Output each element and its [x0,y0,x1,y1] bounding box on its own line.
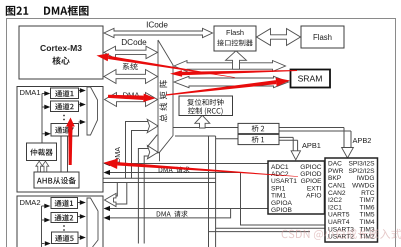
svg-text:TIM4: TIM4 [359,219,374,226]
svg-text:EXTI: EXTI [307,185,322,192]
label: DMA 请求 (upper request lines) [159,167,190,173]
wire: DMA2 channels to trapezoid [78,203,81,238]
bus channel: DMA1 master elbow arrowhead into bus matrix [147,119,158,132]
bus arrow: ICode double arrow Cortex to Flash interface [104,28,213,37]
bus channel: slant line from matrix into DMA master elbow [147,135,157,147]
svg-text:Flash: Flash [313,33,332,42]
wire: bus-matrix to bridge2 line [173,127,238,129]
svg-text:GPIOD: GPIOD [300,171,321,178]
wire: bridge1 to APB1 channel [279,137,298,151]
block: Flash memory box [301,26,344,48]
block: DMA2 controller box (cut off at bottom) [17,196,103,247]
junction: solid arrowhead DMA request line 1 [104,161,111,166]
wire: DMA request line 3 (to DMA2) [106,208,268,210]
svg-text:USART1: USART1 [271,178,297,185]
label: 系统 (system) [123,63,138,70]
bus arrow: APB2 down V arrowhead into peripheral box2 [342,148,354,159]
bus channel: DMA2 master elbow channel lines [138,149,148,244]
label: channel ellipsis dots (DMA1) [63,115,65,117]
bus channel: hollow arrow into AHB slave of DMA1 [79,173,93,188]
watermark: CSDN [282,229,401,240]
block: DMA1 controller box [17,87,103,193]
svg-text:SPI1: SPI1 [271,185,286,192]
svg-text:GPIOA: GPIOA [271,200,292,207]
bus matrix 总线矩阵 [158,40,173,161]
block: APB1-group peripheral box (ADC1...) [268,161,325,214]
bus channel: hollow arrow into DMA2 [105,193,117,206]
svg-text:I2C1: I2C1 [328,204,342,211]
bus channel: DMA2 master elbow arrowhead into matrix [147,146,158,159]
wire: DMA1 channel feed vertical with branches [42,94,45,144]
wire: DMA request line 4 (to DMA2) with up-stub [106,209,231,218]
block: bridge 1 box [238,134,279,144]
wire: DMA request line 1 (to DMA1) [106,163,268,165]
bus arrow: Flash interface to Flash memory double arrow [257,29,301,46]
bus arrow: matrix to SRAM lower double arrow [174,76,289,87]
component: DMA1 internal bus mux trapezoid [87,87,98,135]
block: APB2-group peripheral box (DAC...) [325,158,378,242]
wire: DMA request line 2 (to DMA1) with jog down to APB feed [106,173,325,226]
svg-text:GPIOB: GPIOB [271,207,292,214]
svg-text:TIM5: TIM5 [359,212,374,219]
block: arbiter 仲裁器 box (DMA1) [27,143,57,161]
wire: DMA1 channels to internal bus trapezoid [79,91,81,123]
svg-text:AFIO: AFIO [306,193,321,200]
svg-text:ADC1: ADC1 [271,164,289,171]
label: 总线矩阵 (vertical) [159,80,167,122]
bus arrow: two small up arrows arbiter to AHB slave [36,161,43,172]
annotation: red arrow to bus matrix [170,70,182,77]
annotation: red arrow on DMA bus label [143,94,155,102]
block: SRAM box [291,70,331,88]
bus arrow: DCode double arrow [104,46,158,58]
block: Flash interface controller box [214,26,256,51]
svg-text:RTC: RTC [361,190,375,197]
block: channel box 通道7 (DMA1) [51,124,79,137]
svg-text:UART5: UART5 [328,212,350,219]
bus channel: DMA1 master elbow channel lines [126,122,149,179]
label: figure title DMA框图 [44,5,89,15]
svg-text:SPI2/I2S: SPI2/I2S [348,168,375,175]
svg-text:TIM2: TIM2 [359,234,374,241]
svg-text:SPI3/I2S: SPI3/I2S [348,161,375,168]
svg-text:DCode: DCode [121,38,147,47]
svg-text:BKP: BKP [328,175,342,182]
wire: bottom collector line [209,231,311,233]
svg-text:APB1: APB1 [302,141,321,150]
block: channel box 通道5 (DMA2) [52,232,79,244]
label: DMA 请求 (lower request lines) [157,211,188,217]
svg-text:CAN2: CAN2 [328,190,346,197]
block: Cortex-M3 core box U-CPU [19,26,103,79]
junction: solid arrowhead DMA request line 2 [104,170,111,175]
svg-text:DMA1: DMA1 [20,88,41,97]
svg-text:DAC: DAC [328,161,342,168]
block: AHB slave 从设备 box (DMA1) [34,172,79,188]
label: figure title 图21 [6,6,28,16]
wire: lower collector line to peripheral box2 [216,227,325,229]
wire: feed line to bridge1 [216,138,238,140]
svg-text:I2C2: I2C2 [328,197,342,204]
annotation: red arrow to SRAM [276,78,290,87]
svg-text:Flash: Flash [226,28,244,37]
bus arrow: System bus double arrow [104,70,158,84]
svg-text:WWDG: WWDG [352,183,374,190]
svg-text:TIM3: TIM3 [359,226,374,233]
block: bridge 2 box [238,123,279,133]
svg-text:TIM1: TIM1 [271,193,286,200]
svg-text:ICode: ICode [146,21,168,30]
svg-text:GPIOC: GPIOC [300,164,321,171]
wire: bus-matrix lower line to vertical AHB channel [175,135,216,137]
svg-text:TIM6: TIM6 [359,204,374,211]
bus arrow: up arrow from AHB bus to Flash interface controller [226,51,247,69]
svg-text:UART4: UART4 [328,219,350,226]
wire: vertical AHB system bus pair [209,136,216,247]
junction: feed arrowheads into DMA1 channels [44,91,50,96]
junction: solid arrowhead DMA request line 3 [104,206,111,211]
label: channel ellipsis dots (DMA2) [63,225,65,227]
wire: DMA2 channel feed vertical with branches [42,206,45,247]
wire: bridge2 to APB2 channel [279,128,351,148]
annotation: red arrow to Cortex core [97,53,110,61]
svg-text:Cortex-M3: Cortex-M3 [40,43,82,53]
svg-text:GPIOE: GPIOE [301,178,322,185]
component: DMA2 internal bus mux trapezoid (cut off) [87,198,98,247]
annotation: red arrow on DMA request line [104,159,118,169]
bus arrow: up arrow into RCC [195,115,210,128]
bus arrow: DMA double arrow DMA1 to matrix [105,93,158,107]
svg-text:IWDG: IWDG [357,175,375,182]
svg-text:PWR: PWR [328,168,344,175]
bus arrow: matrix to SRAM upper double arrow [174,61,286,72]
block: channel box 通道1 (DMA2) [51,198,78,209]
bus arrow: APB1 down V arrowhead into peripheral box1 [291,151,300,160]
svg-text:DMA2: DMA2 [20,198,41,207]
svg-text:CAN1: CAN1 [328,183,346,190]
block: RCC reset and clock control box [179,96,233,116]
annotation: red arrow up through DMA1 channels [66,118,75,127]
block: channel box 通道2 (DMA1) [51,101,79,112]
block: channel box 通道1 (DMA1) [51,88,79,99]
wire: DMA1 internal verticals to AHB slave [61,136,68,172]
block: channel box 通道2 (DMA2) [51,213,78,223]
svg-text:SRAM: SRAM [298,74,323,84]
bus channel: AHB slave horizontal channel to DMA1 [93,178,216,182]
junction: solid arrowhead DMA request line 4 [104,215,111,220]
svg-text:TIM7: TIM7 [359,197,374,204]
bus channel: branch down-left into DMA2 slave port [113,183,127,205]
svg-text:APB2: APB2 [353,136,372,145]
